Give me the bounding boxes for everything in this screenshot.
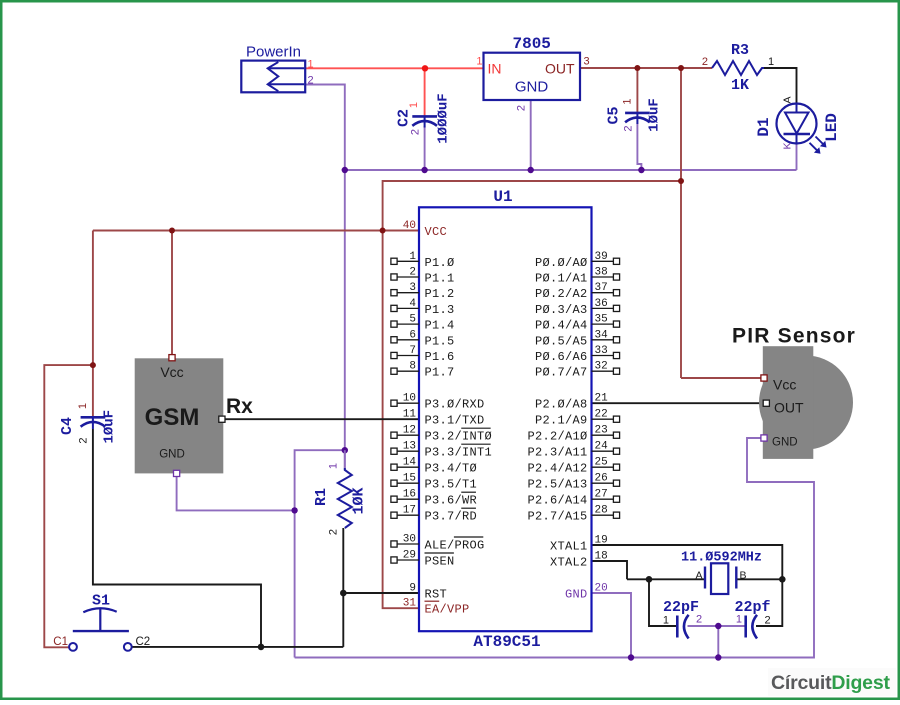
svg-text:GND: GND (515, 79, 549, 96)
svg-text:14: 14 (403, 457, 417, 469)
svg-text:9: 9 (409, 583, 416, 595)
svg-text:LED: LED (823, 113, 841, 142)
svg-text:GSM: GSM (145, 404, 200, 431)
svg-text:P2.6/A14: P2.6/A14 (527, 494, 587, 508)
svg-text:P2.4/A12: P2.4/A12 (527, 462, 587, 476)
svg-text:30: 30 (403, 534, 416, 546)
svg-text:Vcc: Vcc (773, 377, 796, 393)
svg-text:P1.5: P1.5 (425, 334, 455, 348)
svg-text:1: 1 (408, 102, 420, 108)
svg-text:5: 5 (409, 314, 416, 326)
svg-text:P3.Ø/RXD: P3.Ø/RXD (425, 398, 485, 412)
svg-text:1: 1 (77, 403, 89, 409)
svg-text:1: 1 (409, 251, 416, 263)
svg-text:P1.Ø: P1.Ø (425, 256, 455, 270)
svg-text:28: 28 (595, 505, 608, 517)
svg-text:2: 2 (765, 615, 771, 627)
svg-text:VCC: VCC (425, 225, 448, 239)
svg-text:1: 1 (476, 56, 482, 68)
svg-text:R1: R1 (313, 488, 330, 506)
svg-text:Rx: Rx (226, 395, 253, 418)
svg-text:29: 29 (403, 550, 416, 562)
svg-text:20: 20 (595, 583, 608, 595)
svg-text:C2: C2 (136, 636, 151, 648)
svg-text:37: 37 (595, 282, 608, 294)
svg-text:P2.3/A11: P2.3/A11 (527, 446, 587, 460)
svg-text:11: 11 (403, 409, 417, 421)
svg-text:2: 2 (696, 614, 702, 626)
svg-text:C1: C1 (53, 636, 68, 648)
svg-text:2: 2 (409, 267, 416, 279)
svg-text:21: 21 (595, 393, 609, 405)
svg-text:1: 1 (622, 98, 634, 104)
svg-text:7805: 7805 (512, 35, 550, 53)
svg-text:32: 32 (595, 361, 608, 373)
svg-text:OUT: OUT (774, 400, 804, 416)
svg-text:U1: U1 (493, 188, 512, 206)
svg-text:XTAL2: XTAL2 (550, 556, 588, 570)
svg-text:19: 19 (595, 535, 608, 547)
svg-text:P1.2: P1.2 (425, 287, 455, 301)
svg-text:P2.2/A1Ø: P2.2/A1Ø (527, 430, 587, 444)
svg-text:GND: GND (565, 588, 588, 602)
svg-text:2: 2 (308, 75, 314, 87)
svg-text:P1.1: P1.1 (425, 272, 455, 286)
svg-text:C5: C5 (606, 106, 623, 124)
svg-text:4: 4 (409, 298, 416, 310)
svg-text:PØ.1/A1: PØ.1/A1 (535, 272, 588, 286)
svg-text:18: 18 (595, 551, 608, 563)
svg-text:PSEN: PSEN (425, 555, 455, 569)
svg-text:26: 26 (595, 473, 608, 485)
svg-text:13: 13 (403, 441, 416, 453)
svg-text:XTAL1: XTAL1 (550, 540, 588, 554)
svg-text:P3.1/TXD: P3.1/TXD (425, 414, 485, 428)
svg-text:27: 27 (595, 489, 608, 501)
svg-text:S1: S1 (92, 593, 110, 610)
svg-text:P3.6/WR: P3.6/WR (425, 494, 478, 508)
svg-text:3: 3 (584, 56, 590, 68)
svg-text:PØ.2/A2: PØ.2/A2 (535, 287, 588, 301)
svg-text:P1.3: P1.3 (425, 303, 455, 317)
svg-text:P3.4/TØ: P3.4/TØ (425, 462, 478, 476)
svg-text:C2: C2 (396, 109, 413, 127)
svg-text:EA/VPP: EA/VPP (425, 603, 470, 617)
svg-text:GND: GND (772, 437, 798, 449)
svg-text:25: 25 (595, 457, 608, 469)
svg-text:P2.1/A9: P2.1/A9 (535, 414, 588, 428)
svg-text:PØ.6/A6: PØ.6/A6 (535, 350, 588, 364)
svg-text:P3.2/INTØ: P3.2/INTØ (425, 430, 493, 444)
svg-text:15: 15 (403, 473, 416, 485)
svg-text:12: 12 (403, 425, 416, 437)
svg-text:1K: 1K (731, 77, 749, 94)
svg-text:PowerIn: PowerIn (246, 44, 301, 61)
svg-text:K: K (782, 142, 794, 149)
svg-text:1: 1 (663, 615, 669, 627)
svg-text:2: 2 (623, 125, 635, 131)
svg-text:38: 38 (595, 267, 608, 279)
svg-text:36: 36 (595, 298, 608, 310)
svg-text:17: 17 (403, 505, 416, 517)
svg-text:PIR Sensor: PIR Sensor (732, 325, 856, 348)
svg-text:24: 24 (595, 441, 609, 453)
svg-text:23: 23 (595, 425, 608, 437)
svg-text:40: 40 (403, 220, 416, 232)
svg-text:D1: D1 (755, 117, 773, 136)
svg-text:P1.4: P1.4 (425, 319, 455, 333)
svg-text:8: 8 (409, 361, 416, 373)
svg-text:16: 16 (403, 489, 416, 501)
svg-text:P3.5/T1: P3.5/T1 (425, 478, 478, 492)
svg-text:22: 22 (595, 409, 608, 421)
svg-text:RST: RST (425, 588, 448, 602)
svg-text:2: 2 (78, 437, 90, 443)
svg-text:6: 6 (409, 329, 416, 341)
svg-text:2: 2 (516, 105, 528, 111)
svg-text:35: 35 (595, 314, 608, 326)
svg-text:1ØuF: 1ØuF (102, 410, 118, 444)
svg-text:1ØK: 1ØK (351, 487, 368, 514)
svg-text:ALE/PROG: ALE/PROG (425, 539, 485, 553)
svg-text:PØ.7/A7: PØ.7/A7 (535, 366, 588, 380)
svg-text:CírcuitDigest: CírcuitDigest (771, 672, 890, 694)
svg-text:PØ.Ø/AØ: PØ.Ø/AØ (535, 256, 588, 270)
svg-text:PØ.4/A4: PØ.4/A4 (535, 319, 588, 333)
svg-text:PØ.5/A5: PØ.5/A5 (535, 334, 588, 348)
svg-text:GND: GND (159, 448, 185, 460)
svg-text:1ØuF: 1ØuF (647, 98, 663, 132)
svg-text:2: 2 (410, 129, 422, 135)
svg-text:1: 1 (736, 614, 742, 626)
svg-text:Vcc: Vcc (160, 364, 183, 380)
svg-text:2: 2 (328, 529, 340, 535)
svg-text:34: 34 (595, 329, 609, 341)
svg-text:2: 2 (702, 56, 708, 68)
svg-text:R3: R3 (731, 42, 749, 59)
svg-text:PØ.3/A3: PØ.3/A3 (535, 303, 588, 317)
svg-text:7: 7 (409, 345, 416, 357)
svg-text:3: 3 (409, 282, 416, 294)
svg-text:P3.3/INT1: P3.3/INT1 (425, 446, 493, 460)
svg-text:OUT: OUT (545, 61, 575, 77)
svg-text:P2.5/A13: P2.5/A13 (527, 478, 587, 492)
svg-text:C4: C4 (59, 417, 76, 435)
svg-text:IN: IN (488, 61, 502, 77)
svg-text:P3.7/RD: P3.7/RD (425, 510, 478, 524)
svg-text:B: B (740, 570, 747, 582)
svg-text:39: 39 (595, 251, 608, 263)
svg-text:P1.6: P1.6 (425, 350, 455, 364)
svg-text:1: 1 (308, 59, 314, 71)
svg-text:22pF: 22pF (663, 599, 699, 616)
svg-text:1: 1 (768, 56, 774, 68)
svg-text:P2.Ø/A8: P2.Ø/A8 (535, 398, 588, 412)
svg-text:1ØØØuF: 1ØØØuF (436, 93, 452, 143)
svg-text:P2.7/A15: P2.7/A15 (527, 510, 587, 524)
svg-text:AT89C51: AT89C51 (473, 633, 540, 651)
svg-text:1: 1 (328, 463, 340, 469)
svg-text:31: 31 (403, 598, 417, 610)
svg-text:33: 33 (595, 345, 608, 357)
svg-text:A: A (782, 96, 794, 103)
svg-text:P1.7: P1.7 (425, 366, 455, 380)
svg-text:10: 10 (403, 393, 416, 405)
svg-text:A: A (695, 570, 702, 582)
